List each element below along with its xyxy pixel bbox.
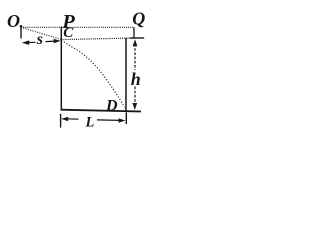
L dimension right arrow [119, 118, 126, 122]
box bottom edge with right tick extension [61, 110, 141, 112]
tick below Q [133, 27, 135, 38]
dotted trajectory curve C to D [61, 40, 124, 107]
L dimension left arrow [61, 117, 68, 121]
h dimension top tick [130, 37, 144, 39]
L dimension line left [67, 118, 79, 120]
svg-text:h: h [131, 69, 141, 89]
svg-text:O: O [7, 11, 20, 31]
box left edge [60, 27, 62, 111]
dotted level line C to h tick [61, 38, 133, 40]
dotted sight line O to Q [21, 26, 134, 28]
s dimension line left [28, 41, 36, 43]
dotted trajectory O to C [21, 27, 61, 39]
svg-text:Q: Q [132, 9, 145, 29]
s dimension left arrow [22, 40, 29, 45]
L dimension right tick [125, 112, 127, 124]
s dimension right arrow [54, 39, 61, 43]
L dimension left tick [60, 114, 62, 128]
h dimension arrow down [132, 103, 137, 110]
h dimension line upper [134, 44, 136, 70]
tick head dot at O [20, 25, 23, 28]
s dimension line right [46, 40, 56, 43]
h dimension line lower [134, 87, 136, 106]
svg-text:L: L [85, 114, 95, 130]
box right edge [125, 38, 127, 112]
h dimension arrow up [133, 39, 138, 46]
L dimension line right [97, 119, 121, 122]
tick at O [20, 26, 22, 39]
